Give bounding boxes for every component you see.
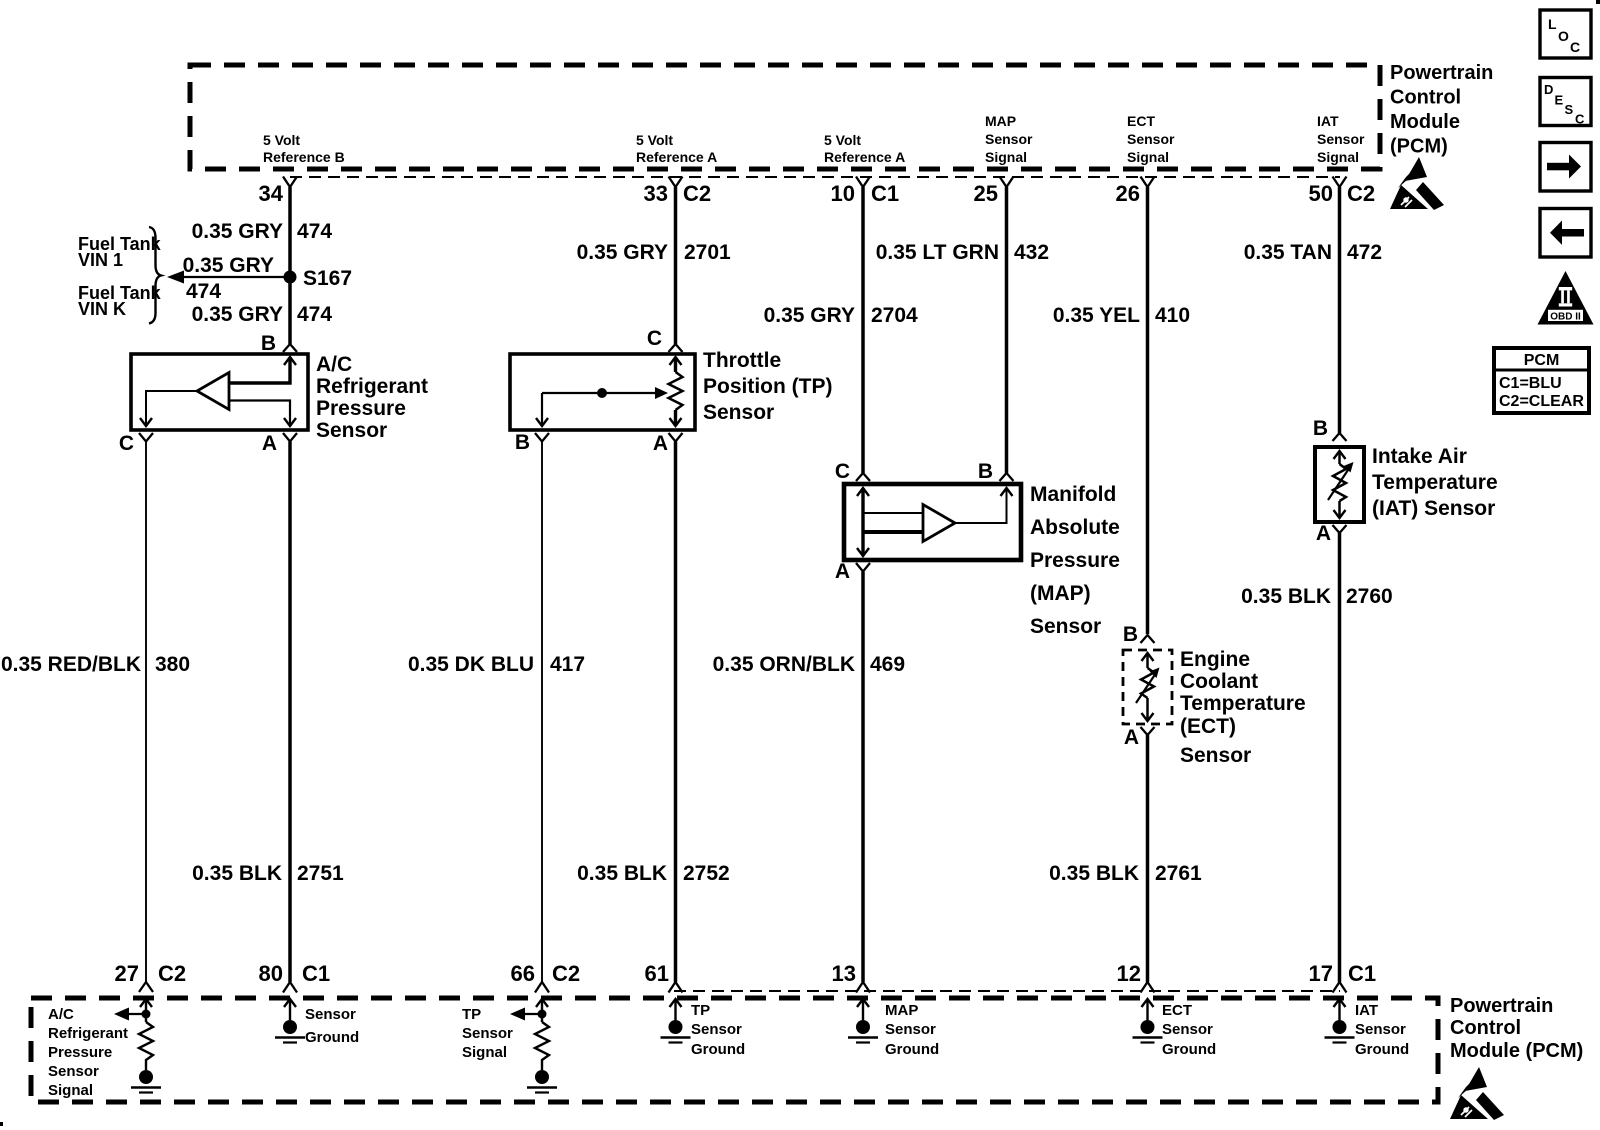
svg-text:Module: Module	[1390, 111, 1460, 133]
svg-text:(MAP): (MAP)	[1030, 582, 1091, 605]
pin 12 terminal	[1141, 982, 1155, 993]
corner scan mark top right	[1596, 0, 1600, 4]
PCM top dashed box	[190, 65, 1380, 169]
ECT thermistor wire bottom	[1146, 698, 1149, 721]
svg-text:A: A	[1124, 726, 1139, 749]
wire 474 GRY pin34 to A/C sensor	[288, 187, 292, 344]
svg-text:Coolant: Coolant	[1180, 670, 1258, 693]
PCM bottom dashed box	[31, 998, 1438, 1102]
wire 2701 GRY pin33 to TP sensor	[674, 187, 678, 344]
svg-text:Sensor: Sensor	[691, 1021, 742, 1038]
svg-text:0.35 BLK: 0.35 BLK	[1241, 585, 1331, 608]
pin 27 junction dot	[142, 1010, 151, 1019]
svg-text:0.35 LT GRN: 0.35 LT GRN	[876, 241, 999, 264]
left arrow icon box	[1540, 209, 1591, 258]
svg-text:A/C: A/C	[316, 353, 352, 376]
svg-text:VIN K: VIN K	[78, 299, 126, 319]
svg-text:380: 380	[155, 653, 190, 676]
MAP internal arrow at B	[1001, 488, 1013, 496]
pin 25 terminal	[1000, 177, 1014, 188]
pin 66 ground	[535, 1070, 549, 1084]
svg-text:C2=CLEAR: C2=CLEAR	[1499, 393, 1584, 410]
DESC icon box	[1540, 78, 1591, 126]
pin 12 internal stem	[1146, 999, 1148, 1020]
pin 17 terminal	[1333, 982, 1347, 993]
svg-text:Reference A: Reference A	[636, 149, 717, 165]
svg-text:2752: 2752	[683, 862, 730, 885]
IAT thermistor diagonal arrow	[1328, 467, 1350, 500]
pin A terminal (MAP)	[856, 563, 870, 572]
TP wiper wire	[542, 392, 658, 394]
pin 34 terminal	[283, 177, 297, 188]
pin B terminal (ECT)	[1141, 635, 1155, 643]
pin 27 internal arrow (up)	[140, 999, 152, 1007]
svg-text:0.35 BLK: 0.35 BLK	[192, 862, 282, 885]
svg-text:ECT: ECT	[1162, 1002, 1192, 1019]
svg-text:Sensor: Sensor	[1162, 1021, 1213, 1038]
pin 66 internal resistor	[535, 1022, 549, 1070]
svg-text:Manifold: Manifold	[1030, 483, 1116, 506]
pin B terminal (TP)	[535, 433, 549, 442]
TP internal arrow at B (down)	[536, 418, 548, 426]
svg-text:A: A	[835, 560, 850, 583]
svg-text:0.35 YEL: 0.35 YEL	[1053, 304, 1140, 327]
svg-text:Control: Control	[1390, 87, 1461, 109]
svg-text:Sensor: Sensor	[316, 419, 387, 442]
A/C op-amp triangle	[197, 373, 229, 410]
svg-text:Pressure: Pressure	[1030, 549, 1120, 572]
svg-text:Pressure: Pressure	[48, 1044, 112, 1061]
svg-text:Powertrain: Powertrain	[1450, 995, 1553, 1017]
svg-text:Throttle: Throttle	[703, 349, 781, 372]
svg-text:A: A	[1316, 522, 1331, 545]
TP internal arrow at A (down)	[670, 418, 682, 426]
svg-text:13: 13	[832, 961, 856, 986]
svg-text:C: C	[1570, 39, 1580, 55]
svg-text:Temperature: Temperature	[1180, 692, 1306, 715]
svg-text:474: 474	[186, 280, 221, 303]
svg-text:26: 26	[1116, 181, 1140, 206]
pin 50 terminal	[1333, 177, 1347, 188]
pin 27 branch to left arrow	[121, 1013, 146, 1015]
svg-text:Intake Air: Intake Air	[1372, 445, 1467, 468]
MAP op-amp triangle	[923, 505, 955, 542]
MAP sensor box	[844, 484, 1021, 560]
A/C internal output wire to C	[146, 391, 197, 426]
ECT sensor dashed box	[1123, 650, 1172, 724]
svg-text:IAT: IAT	[1317, 113, 1339, 129]
TP internal wire wiper to B	[541, 393, 543, 426]
svg-text:C1=BLU: C1=BLU	[1499, 375, 1562, 392]
svg-text:410: 410	[1155, 304, 1190, 327]
pin C terminal (TP)	[669, 344, 683, 352]
svg-text:VIN 1: VIN 1	[78, 250, 123, 270]
wire 474 GRY branch to fuel tank	[174, 276, 290, 278]
svg-text:Refrigerant: Refrigerant	[48, 1025, 128, 1042]
pin 12 ground	[1141, 1020, 1155, 1034]
MAP internal arrow at A (down)	[857, 548, 869, 556]
svg-text:Powertrain: Powertrain	[1390, 62, 1493, 84]
svg-text:Sensor: Sensor	[1317, 131, 1365, 147]
svg-text:Sensor: Sensor	[462, 1025, 513, 1042]
pin 61 terminal	[669, 982, 683, 993]
svg-text:B: B	[1313, 417, 1328, 440]
svg-text:Sensor: Sensor	[1355, 1021, 1406, 1038]
pin B terminal (A/C)	[283, 344, 297, 352]
A/C refrigerant pressure sensor box	[131, 354, 308, 430]
TP potentiometer resistor	[669, 372, 683, 410]
svg-text:0.35 DK BLU: 0.35 DK BLU	[408, 653, 534, 676]
svg-text:2760: 2760	[1346, 585, 1393, 608]
svg-text:12: 12	[1117, 961, 1141, 986]
svg-text:(IAT) Sensor: (IAT) Sensor	[1372, 497, 1495, 520]
svg-text:10: 10	[831, 181, 855, 206]
pin 13 internal arrow (up)	[857, 999, 869, 1007]
svg-text:TP: TP	[462, 1006, 481, 1023]
svg-text:C1: C1	[1348, 961, 1376, 986]
Throttle Position sensor box	[510, 354, 695, 430]
TP internal arrow at C	[670, 357, 682, 365]
svg-text:Position (TP): Position (TP)	[703, 375, 833, 398]
svg-text:34: 34	[259, 181, 284, 206]
svg-text:2751: 2751	[297, 862, 344, 885]
OBD II triangle icon	[1538, 271, 1594, 325]
svg-text:0.35 ORN/BLK: 0.35 ORN/BLK	[713, 653, 855, 676]
wire 2760 BLK IAT A to pin 17	[1338, 533, 1342, 982]
svg-text:Refrigerant: Refrigerant	[316, 375, 428, 398]
svg-text:C2: C2	[1347, 181, 1375, 206]
pin 10 terminal	[856, 177, 870, 188]
svg-text:Signal: Signal	[462, 1044, 507, 1061]
svg-text:0.35 GRY: 0.35 GRY	[192, 303, 283, 326]
pin A terminal (TP)	[669, 433, 683, 442]
svg-text:5 Volt: 5 Volt	[824, 132, 861, 148]
wire 2752 BLK TP A to pin 61	[674, 442, 678, 983]
svg-text:B: B	[261, 332, 276, 355]
svg-text:Temperature: Temperature	[1372, 471, 1498, 494]
svg-text:0.35 GRY: 0.35 GRY	[192, 220, 283, 243]
svg-text:IAT: IAT	[1355, 1002, 1378, 1019]
svg-text:Control: Control	[1450, 1017, 1521, 1039]
svg-text:B: B	[1123, 623, 1138, 646]
wire 410 YEL pin26 to ECT sensor	[1146, 187, 1150, 634]
svg-text:Engine: Engine	[1180, 648, 1250, 671]
svg-text:Sensor: Sensor	[1180, 744, 1251, 767]
svg-text:0.35 GRY: 0.35 GRY	[183, 254, 274, 277]
pin 33 terminal	[669, 177, 683, 188]
IAT thermistor wire bottom	[1338, 501, 1341, 518]
svg-text:50: 50	[1309, 181, 1333, 206]
bottom connector dashed line	[674, 990, 1340, 992]
pin 80 internal stem	[289, 999, 291, 1020]
ECT internal arrow at A (down)	[1142, 713, 1154, 721]
ESD symbol bottom right	[1450, 1067, 1504, 1120]
svg-text:B: B	[515, 431, 530, 454]
svg-text:L: L	[1548, 16, 1557, 32]
svg-text:2704: 2704	[871, 304, 918, 327]
IAT thermistor zigzag	[1333, 464, 1346, 501]
ESD symbol top right	[1390, 157, 1444, 210]
pin 17 internal stem	[1338, 999, 1340, 1020]
A/C internal wire B	[229, 357, 290, 383]
svg-text:S167: S167	[303, 267, 352, 290]
pin 66 terminal	[535, 982, 549, 993]
svg-text:469: 469	[870, 653, 905, 676]
pin 13 internal stem	[862, 999, 864, 1020]
pin 27 terminal	[139, 982, 153, 992]
pin 66 internal stem	[541, 999, 543, 1022]
pin 66 internal arrow (up)	[536, 999, 548, 1007]
svg-text:Ground: Ground	[691, 1041, 745, 1058]
A/C internal arrow at C (down)	[140, 418, 152, 426]
splice S167 dot	[284, 271, 297, 284]
pin 80 ground	[283, 1020, 297, 1034]
svg-text:OBD II: OBD II	[1550, 312, 1581, 323]
IAT thermistor wire top	[1338, 451, 1341, 464]
svg-text:2701: 2701	[684, 241, 731, 264]
svg-text:33: 33	[644, 181, 668, 206]
svg-text:474: 474	[297, 303, 332, 326]
svg-text:Signal: Signal	[1317, 149, 1359, 165]
svg-text:5 Volt: 5 Volt	[263, 132, 300, 148]
svg-text:0.35 TAN: 0.35 TAN	[1244, 241, 1332, 264]
pin 66 junction dot	[538, 1010, 547, 1019]
TP internal wire resistor to A	[674, 410, 677, 426]
svg-text:C: C	[1575, 112, 1585, 127]
svg-text:E: E	[1555, 93, 1564, 108]
pin 61 ground	[669, 1020, 683, 1034]
pin 80 terminal	[283, 982, 297, 993]
pin 17 internal arrow (up)	[1334, 999, 1346, 1007]
svg-text:Sensor: Sensor	[305, 1006, 356, 1023]
svg-text:0.35 GRY: 0.35 GRY	[764, 304, 855, 327]
svg-text:C: C	[835, 460, 850, 483]
svg-text:Ground: Ground	[885, 1041, 939, 1058]
pin 13 ground	[856, 1020, 870, 1034]
pin 27 ground	[139, 1070, 153, 1084]
svg-text:Ground: Ground	[305, 1029, 359, 1046]
svg-text:Reference B: Reference B	[263, 149, 345, 165]
svg-text:0.35 BLK: 0.35 BLK	[1049, 862, 1139, 885]
wire 469 ORN/BLK MAP A to pin 13	[861, 572, 865, 983]
svg-text:C1: C1	[871, 181, 899, 206]
pin A terminal (A/C)	[283, 433, 297, 442]
fuel tank brace	[149, 227, 161, 324]
TP wiper arrowhead	[655, 387, 668, 399]
pin B terminal (MAP)	[1000, 473, 1014, 481]
pin 61 internal arrow (up)	[670, 999, 682, 1007]
svg-text:D: D	[1544, 82, 1553, 97]
svg-text:(PCM): (PCM)	[1390, 136, 1448, 158]
svg-text:MAP: MAP	[985, 113, 1016, 129]
svg-text:O: O	[1558, 28, 1569, 44]
svg-text:TP: TP	[691, 1002, 710, 1019]
pin 27 internal stem	[145, 999, 147, 1022]
svg-text:C2: C2	[683, 181, 711, 206]
pin A terminal (IAT)	[1333, 525, 1347, 533]
svg-text:0.35 GRY: 0.35 GRY	[577, 241, 668, 264]
svg-text:A/C: A/C	[48, 1006, 74, 1023]
svg-text:Ground: Ground	[1162, 1041, 1216, 1058]
IAT internal arrow at B	[1334, 451, 1346, 459]
ECT thermistor wire top	[1146, 653, 1149, 668]
ECT thermistor diagonal arrow	[1136, 673, 1156, 703]
ECT thermistor zigzag	[1141, 668, 1154, 698]
svg-text:66: 66	[511, 961, 535, 986]
pin 17 ground	[1333, 1020, 1347, 1034]
pin 26 terminal	[1141, 177, 1155, 188]
wire 2751 BLK A/C A to pin 80	[288, 442, 292, 983]
wire 417 DK BLU TP B to pin 66	[541, 442, 543, 983]
svg-text:80: 80	[259, 961, 283, 986]
IAT sensor box	[1315, 447, 1364, 522]
svg-text:C1: C1	[302, 961, 330, 986]
svg-text:2761: 2761	[1155, 862, 1202, 885]
svg-text:B: B	[978, 460, 993, 483]
svg-text:C2: C2	[158, 961, 186, 986]
svg-text:(ECT): (ECT)	[1180, 715, 1236, 738]
svg-text:C: C	[647, 327, 662, 350]
svg-text:Signal: Signal	[48, 1082, 93, 1099]
MAP internal upper input wire	[863, 512, 923, 514]
svg-text:A: A	[653, 432, 668, 455]
MAP internal lower input wire	[863, 530, 923, 534]
svg-text:25: 25	[974, 181, 998, 206]
corner scan mark bottom left	[0, 1122, 3, 1126]
svg-text:5 Volt: 5 Volt	[636, 132, 673, 148]
svg-text:Sensor: Sensor	[703, 401, 774, 424]
A/C internal arrow at B	[284, 357, 296, 365]
svg-text:472: 472	[1347, 241, 1382, 264]
pin C terminal (A/C)	[139, 433, 153, 442]
svg-text:Reference A: Reference A	[824, 149, 905, 165]
svg-text:27: 27	[115, 961, 139, 986]
svg-text:ECT: ECT	[1127, 113, 1155, 129]
pin 27 internal resistor	[139, 1022, 153, 1070]
svg-text:474: 474	[297, 220, 332, 243]
svg-text:17: 17	[1309, 961, 1333, 986]
pin A terminal (ECT)	[1141, 727, 1155, 735]
LOC icon box	[1540, 10, 1591, 58]
pin B terminal (IAT)	[1333, 433, 1347, 441]
IAT internal arrow at A (down)	[1334, 510, 1346, 518]
svg-text:A: A	[262, 432, 277, 455]
svg-text:Pressure: Pressure	[316, 397, 406, 420]
svg-text:Signal: Signal	[985, 149, 1027, 165]
A/C internal arrow at A (down)	[284, 418, 296, 426]
A/C internal wire lower input to A	[229, 401, 290, 427]
MAP internal output wire to B	[955, 488, 1007, 523]
svg-text:S: S	[1565, 102, 1574, 117]
pin 61 internal stem	[674, 999, 676, 1020]
svg-text:432: 432	[1014, 241, 1049, 264]
svg-text:C: C	[119, 432, 134, 455]
svg-text:MAP: MAP	[885, 1002, 918, 1019]
svg-text:C2: C2	[552, 961, 580, 986]
wire 2704 GRY pin10 to MAP sensor	[861, 187, 865, 473]
MAP internal arrow at C	[857, 488, 869, 496]
wire 432 LT GRN pin25 to MAP sensor B	[1005, 187, 1009, 473]
svg-text:Sensor: Sensor	[1030, 615, 1101, 638]
svg-text:Module (PCM): Module (PCM)	[1450, 1040, 1583, 1062]
TP internal wire C to resistor	[674, 357, 677, 372]
top connector dashed line	[290, 176, 1340, 178]
pin 12 internal arrow (up)	[1142, 999, 1154, 1007]
svg-text:PCM: PCM	[1524, 352, 1560, 369]
ECT internal arrow at B	[1142, 653, 1154, 661]
wire 2761 BLK ECT A to pin 12	[1146, 735, 1150, 982]
wire 380 RED/BLK A/C C to pin 27	[145, 442, 147, 983]
MAP internal vertical wire C to A	[861, 488, 864, 556]
wire 472 TAN pin50 to IAT sensor	[1338, 187, 1342, 433]
pin 80 internal arrow (up)	[284, 999, 296, 1007]
svg-text:0.35 RED/BLK: 0.35 RED/BLK	[1, 653, 141, 676]
svg-text:Sensor: Sensor	[1127, 131, 1175, 147]
TP wiper junction dot	[597, 388, 607, 398]
pin 13 terminal	[856, 982, 870, 993]
svg-text:Sensor: Sensor	[885, 1021, 936, 1038]
svg-text:Sensor: Sensor	[985, 131, 1033, 147]
svg-text:61: 61	[645, 961, 669, 986]
PCM connector legend box	[1494, 348, 1589, 413]
svg-text:417: 417	[550, 653, 585, 676]
svg-text:Sensor: Sensor	[48, 1063, 99, 1080]
svg-text:Ground: Ground	[1355, 1041, 1409, 1058]
svg-text:Absolute: Absolute	[1030, 516, 1120, 539]
right arrow icon box	[1540, 143, 1591, 192]
pin C terminal (MAP)	[856, 473, 870, 481]
svg-text:Signal: Signal	[1127, 149, 1169, 165]
pin 66 branch to left arrow	[517, 1013, 542, 1015]
svg-text:0.35 BLK: 0.35 BLK	[577, 862, 667, 885]
branch arrowhead	[167, 271, 184, 284]
